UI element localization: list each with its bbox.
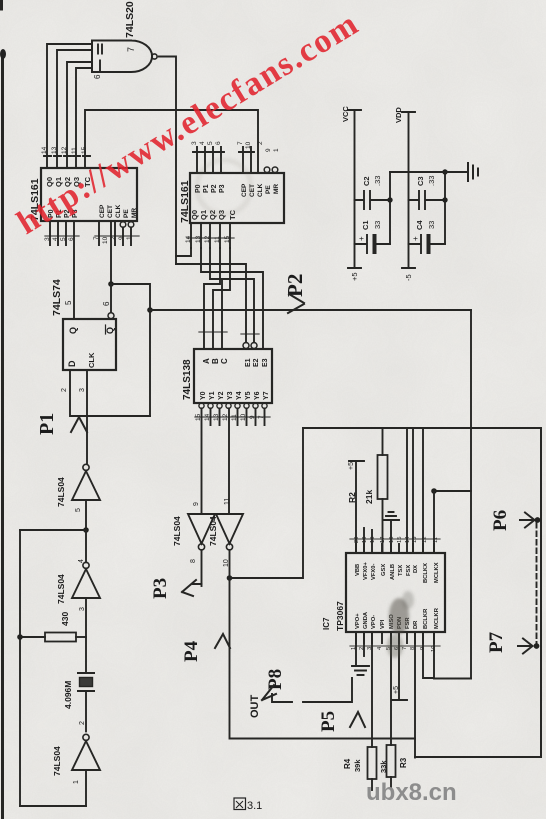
svg-text:33: 33 xyxy=(373,221,382,229)
wire node B to frame corner xyxy=(230,428,304,578)
svg-text:Y6: Y6 xyxy=(254,391,261,400)
inverter U5B 74LS04 xyxy=(72,562,100,598)
U2 bottom pin labels xyxy=(190,209,237,220)
svg-text:14: 14 xyxy=(41,146,48,154)
svg-text:Y4: Y4 xyxy=(236,391,243,400)
wire pin4 to R3 xyxy=(390,632,392,745)
label 74LS161 U2 xyxy=(179,180,191,223)
wire loop top xyxy=(20,529,86,531)
wire Q3->U3 input xyxy=(76,68,92,168)
ground symbol caps xyxy=(468,163,478,181)
codec IC7 TP3067 xyxy=(346,553,445,632)
svg-text:DX: DX xyxy=(413,565,419,573)
svg-text:2: 2 xyxy=(61,388,68,392)
svg-text:4: 4 xyxy=(199,141,206,145)
label C1 xyxy=(361,220,370,230)
svg-text:P4: P4 xyxy=(181,640,202,662)
svg-text:+: + xyxy=(357,236,366,241)
label P2 xyxy=(283,274,307,297)
label 21k xyxy=(364,490,374,504)
svg-text:R2: R2 xyxy=(347,492,357,503)
svg-text:MR: MR xyxy=(273,184,280,194)
wire ground row xyxy=(390,171,468,173)
svg-text:R3: R3 xyxy=(399,757,408,768)
U1 bottom stubs P0-P3 xyxy=(50,221,66,245)
svg-text:BCLKX: BCLKX xyxy=(423,563,429,583)
svg-text:21k: 21k xyxy=(364,490,374,504)
svg-text:+: + xyxy=(411,236,420,241)
U1 bottom pin labels P0-P3 CEP CET CLK PE MR xyxy=(48,209,79,218)
wire DX to frame xyxy=(412,428,414,553)
svg-text:P6: P6 xyxy=(490,510,511,531)
wire U3 output net xyxy=(159,57,176,265)
capacitor C3 .33 xyxy=(409,191,446,209)
svg-text:DR: DR xyxy=(413,620,419,629)
wire GNDA stub xyxy=(363,632,365,656)
arrow P8 xyxy=(262,685,276,700)
U6 output stubs and pin numbers xyxy=(211,408,265,425)
svg-text:VFX0-: VFX0- xyxy=(371,564,377,580)
svg-text:P2: P2 xyxy=(211,184,218,193)
arrow P4 xyxy=(215,634,230,648)
arrow P1 xyxy=(71,417,87,432)
svg-text:MCLKR: MCLKR xyxy=(434,607,440,629)
wire row279 to C xyxy=(221,279,223,349)
wire FSR long down xyxy=(414,632,416,758)
label OUT xyxy=(249,695,261,719)
svg-text:6: 6 xyxy=(102,301,111,306)
U1 bottom stubs CEP CET CLK PE MR xyxy=(99,221,115,245)
U4 pin 3 number xyxy=(79,388,86,392)
label .33 xyxy=(373,176,382,186)
pin 7 of U3 xyxy=(126,47,136,52)
frame bottom right xyxy=(415,756,541,758)
wire node A to DFF feedback column xyxy=(111,284,150,416)
junction dot P6 xyxy=(535,517,541,523)
svg-text:74LS04: 74LS04 xyxy=(208,516,218,546)
wire P2 line corner down xyxy=(470,310,472,679)
svg-text:P2: P2 xyxy=(283,274,307,297)
wire U1 TC to U2 CLK (long top run) xyxy=(85,110,258,173)
svg-text:7: 7 xyxy=(126,47,136,52)
label P8 xyxy=(265,669,286,690)
U2 PE bubble xyxy=(264,167,270,173)
svg-text:9: 9 xyxy=(193,502,200,506)
U4 Qbar bubble xyxy=(108,313,114,319)
resistor R2 21k xyxy=(378,455,388,499)
tick line U2 bottom xyxy=(187,237,234,239)
wire P5 stub line xyxy=(303,678,352,702)
svg-text:-5: -5 xyxy=(404,274,413,281)
label .33 C3 xyxy=(427,176,436,186)
ground symbol GSX xyxy=(383,512,399,553)
capacitor C2 .33 xyxy=(355,191,391,209)
svg-text:74LS20: 74LS20 xyxy=(124,1,136,38)
inverter U7B 74LS04 xyxy=(216,514,243,550)
left page border xyxy=(1,52,4,819)
svg-text:2: 2 xyxy=(79,721,86,725)
frame right edge xyxy=(540,428,542,757)
wire loop right to U5C xyxy=(85,770,87,806)
wire pin19 stub xyxy=(363,528,365,553)
pin 4 U5B xyxy=(78,559,85,563)
svg-text:P8: P8 xyxy=(265,669,286,690)
junction dot C2 node xyxy=(387,197,392,202)
svg-text:CLK: CLK xyxy=(115,204,122,218)
svg-text:P1: P1 xyxy=(36,413,58,435)
svg-text:3: 3 xyxy=(79,388,86,392)
power rail VDD xyxy=(402,112,415,268)
svg-text:13: 13 xyxy=(195,235,202,243)
faint scan smear xyxy=(197,160,251,214)
wire C1-C2 node xyxy=(389,172,391,244)
resistor R4 39k xyxy=(368,747,377,779)
svg-text:33k: 33k xyxy=(379,760,388,773)
U2 bottom pin stubs xyxy=(191,223,230,248)
svg-text:P3: P3 xyxy=(150,578,171,599)
wire rail to 430 xyxy=(20,636,45,638)
svg-text:Q: Q xyxy=(68,327,78,334)
wire pin6 to +5 tick xyxy=(392,632,407,700)
IC7 top row pin labels xyxy=(355,562,440,583)
svg-text:C4: C4 xyxy=(415,220,424,230)
svg-text:P7: P7 xyxy=(486,631,507,653)
svg-text:+5: +5 xyxy=(348,462,355,470)
svg-text:4: 4 xyxy=(52,237,59,241)
plus mark C4 xyxy=(411,236,420,241)
svg-text:74LS04: 74LS04 xyxy=(52,746,62,776)
label P5 xyxy=(318,711,339,732)
wire U5B in down to crystal xyxy=(85,598,87,673)
wire Y0 to U7A xyxy=(201,408,203,514)
tick line IC7 top xyxy=(350,538,440,540)
svg-text:TP3067: TP3067 xyxy=(335,601,345,631)
plus mark C1 xyxy=(357,236,366,241)
label 33k xyxy=(379,760,388,773)
label +5 (vcc bottom) xyxy=(350,272,359,281)
svg-text:D: D xyxy=(67,360,77,367)
label 74LS04 U5A xyxy=(56,477,66,507)
svg-text:C3: C3 xyxy=(416,176,425,186)
resistor 430 xyxy=(45,633,76,642)
label P7 xyxy=(486,631,507,653)
pin 9 U7A xyxy=(193,502,200,506)
svg-text:11: 11 xyxy=(224,498,231,505)
label TP3067 xyxy=(335,601,345,631)
svg-text:OUT: OUT xyxy=(249,695,261,719)
U6 E1 bubble xyxy=(243,343,249,349)
svg-text:VPI: VPI xyxy=(380,619,386,629)
svg-text:4: 4 xyxy=(78,559,85,563)
junction dot rail-430 xyxy=(17,634,23,640)
svg-text:Y3: Y3 xyxy=(227,391,234,400)
svg-text:VPO+: VPO+ xyxy=(355,613,361,629)
svg-text:Y5: Y5 xyxy=(245,391,252,400)
wire U5A in to loop node xyxy=(85,500,87,530)
crystal Y1 4.096M xyxy=(78,673,94,691)
label 74LS04 U5B xyxy=(56,574,66,604)
svg-text:15: 15 xyxy=(224,235,231,243)
svg-text:P5: P5 xyxy=(318,711,339,732)
svg-text:VPO-: VPO- xyxy=(371,615,377,629)
svg-text:PE: PE xyxy=(123,209,130,218)
wire U1 CET down to node A xyxy=(110,221,112,284)
label 74LS74 U4 xyxy=(51,279,63,316)
svg-text:11: 11 xyxy=(214,236,221,243)
svg-text:74LS04: 74LS04 xyxy=(56,477,66,507)
wire U2 Q3 to A xyxy=(204,248,220,349)
label -5 (vdd bottom) xyxy=(404,274,413,281)
wire U2 Q1 to E3 xyxy=(201,248,263,349)
wire U3 out to E1 xyxy=(176,264,246,342)
counter U2 74LS161 xyxy=(190,173,284,223)
svg-text:3.1: 3.1 xyxy=(247,800,262,812)
label 33 xyxy=(373,221,382,229)
label IC7 xyxy=(322,617,331,630)
svg-text:GSX: GSX xyxy=(381,564,387,576)
U2 top stubs xyxy=(197,147,251,173)
pin 5 U5A xyxy=(75,508,82,512)
junction dot osc node xyxy=(83,527,89,533)
wire node A to U4 Qbar bubble xyxy=(110,284,112,313)
wire P2 bus line xyxy=(150,309,471,311)
pin 11 U7B xyxy=(224,498,231,505)
svg-text:CEP: CEP xyxy=(241,183,248,197)
inverter U7A 74LS04 xyxy=(188,514,215,550)
svg-text:FSX: FSX xyxy=(406,565,412,576)
svg-text:11: 11 xyxy=(71,147,78,154)
IC7 top stubs xyxy=(356,428,434,553)
svg-text:12: 12 xyxy=(204,235,211,243)
svg-text:Y2: Y2 xyxy=(218,391,225,400)
U6 enable labels E1 E2 E3 xyxy=(245,358,269,367)
svg-text:.33: .33 xyxy=(427,176,436,186)
decoder U6 74LS138 xyxy=(194,349,272,403)
svg-text:6: 6 xyxy=(93,74,102,79)
svg-text:MR: MR xyxy=(131,208,138,218)
wire U3 out row to U2 Q0 xyxy=(176,248,191,256)
wire U7A out xyxy=(201,550,203,586)
svg-text:C1: C1 xyxy=(361,220,370,230)
wire OUT bracket xyxy=(272,694,292,702)
wire node B down loop xyxy=(230,578,416,739)
resistor R3 33k xyxy=(387,745,396,777)
svg-text:33: 33 xyxy=(427,221,436,229)
wire BCLKR MCLKR bracket xyxy=(423,632,471,679)
wire Q1->U3 input xyxy=(57,50,92,168)
wire BCLKX to frame xyxy=(422,428,424,553)
pin 8 U7A xyxy=(190,559,197,563)
tick line U6 outputs xyxy=(195,416,270,418)
U4 pin 2 number xyxy=(61,388,68,392)
svg-text:BCLKR: BCLKR xyxy=(423,608,429,629)
svg-text:4.096M: 4.096M xyxy=(63,681,73,709)
arrow P3 xyxy=(182,580,202,596)
label VCC xyxy=(341,106,350,122)
svg-text:MCLKX: MCLKX xyxy=(434,562,440,583)
IC7 top pin numbers xyxy=(354,536,439,543)
label 4.096M xyxy=(63,681,73,709)
arrow P7 xyxy=(518,639,533,654)
U1 PE bubble xyxy=(120,222,126,228)
svg-text:ANLB: ANLB xyxy=(390,564,396,580)
wire R2 top to frame xyxy=(382,428,384,455)
label C2 xyxy=(362,176,371,186)
svg-text:CEP: CEP xyxy=(99,204,106,218)
svg-text:9: 9 xyxy=(265,148,272,152)
svg-text:C2: C2 xyxy=(362,176,371,186)
U4 Qbar overbar xyxy=(105,325,107,334)
svg-text:1: 1 xyxy=(273,148,280,152)
svg-text:3: 3 xyxy=(44,237,51,241)
svg-text:7: 7 xyxy=(237,141,244,145)
svg-text:B: B xyxy=(211,358,220,364)
IC7 bottom pin numbers xyxy=(351,646,437,652)
inverter U5C 74LS04 xyxy=(72,734,100,770)
label +5 IC7 xyxy=(348,462,355,470)
U6 E2 bubble xyxy=(251,343,257,349)
label 39k xyxy=(353,759,362,772)
pin 2 U5C xyxy=(79,721,86,725)
label 74LS138 U6 xyxy=(182,359,193,400)
pin 10 U7B xyxy=(223,559,230,567)
label R2 xyxy=(347,492,357,503)
label R4 xyxy=(343,758,352,769)
svg-text:C: C xyxy=(220,358,229,364)
pin 1 U5C xyxy=(73,780,80,784)
wire MCLKX to dot xyxy=(433,491,435,553)
svg-text:Q: Q xyxy=(105,327,115,334)
node A junction dot xyxy=(108,281,114,287)
node P2 junction dot xyxy=(147,307,153,313)
wire C3-C4 node xyxy=(444,172,446,244)
svg-text:430: 430 xyxy=(60,612,70,626)
svg-text:E1: E1 xyxy=(245,358,252,367)
arrow P5 xyxy=(350,712,365,727)
wire L to MCLKX xyxy=(434,490,471,492)
svg-text:+5: +5 xyxy=(350,272,359,281)
label 430 xyxy=(60,612,70,626)
junction dot C3 node xyxy=(442,197,447,202)
svg-text:Q1: Q1 xyxy=(199,210,208,220)
tick line U1 bottom left xyxy=(45,235,79,237)
U1 top pin labels Q0 Q1 Q2 Q3 TC xyxy=(45,176,92,187)
label R3 xyxy=(399,757,408,768)
wire U4 CLK from oscillator xyxy=(86,370,88,464)
svg-text:5: 5 xyxy=(207,141,214,145)
wire R4 bottom stub xyxy=(371,779,373,790)
label 74LS04 U7B xyxy=(208,516,218,546)
U6 output labels Y0-Y7 xyxy=(200,391,270,400)
wire 430 to column xyxy=(76,636,86,638)
U2 top pin labels xyxy=(195,184,226,193)
svg-text:VFX0+: VFX0+ xyxy=(363,562,369,580)
svg-text:2: 2 xyxy=(257,141,264,145)
wire U5B out up xyxy=(85,530,87,562)
tick line U1 bottom right xyxy=(95,235,139,237)
svg-text:6: 6 xyxy=(215,141,222,145)
counter U1 74LS161 xyxy=(41,168,137,221)
svg-text:10: 10 xyxy=(245,141,252,149)
label +5 bottom xyxy=(393,686,400,694)
wire Y3 to U7B xyxy=(228,408,230,514)
wire pin3 to R4 xyxy=(371,632,373,747)
svg-text:IC7: IC7 xyxy=(322,617,331,630)
svg-text:5: 5 xyxy=(60,237,67,241)
svg-text:CLK: CLK xyxy=(257,183,264,197)
tick line IC7 bottom xyxy=(350,645,440,647)
U6 output bubbles xyxy=(199,403,267,408)
svg-text:ubx8.cn: ubx8.cn xyxy=(366,779,457,806)
wire U2 TC to B xyxy=(213,248,230,349)
wire U7B out to node B xyxy=(229,550,231,578)
U1 MR bubble xyxy=(128,222,134,228)
svg-text:E2: E2 xyxy=(253,358,260,367)
svg-text:39k: 39k xyxy=(353,759,362,772)
svg-text:18: 18 xyxy=(370,537,376,543)
svg-text:Y7: Y7 xyxy=(263,391,270,400)
label 33 C4 xyxy=(427,221,436,229)
svg-text:74LS04: 74LS04 xyxy=(172,516,182,546)
svg-text:15: 15 xyxy=(397,537,403,543)
wire crystal to U5C out xyxy=(85,691,87,731)
junction dot MCLKX xyxy=(431,488,437,494)
svg-text:14: 14 xyxy=(185,235,192,243)
junction dot gnd row xyxy=(442,169,447,174)
label 74LS161 U1 xyxy=(29,178,41,221)
svg-text:Q0: Q0 xyxy=(190,210,199,220)
svg-text:A: A xyxy=(202,358,211,364)
junction dot P7 xyxy=(534,643,540,649)
label C4 xyxy=(415,220,424,230)
svg-text:P1: P1 xyxy=(203,184,210,193)
label 74LS20 xyxy=(124,1,136,38)
label P1 xyxy=(36,413,58,435)
label P6 xyxy=(490,510,511,531)
flip-flop U4 74LS74 xyxy=(63,319,116,370)
svg-text:5: 5 xyxy=(75,508,82,512)
main frame top line xyxy=(303,427,541,429)
svg-text:12: 12 xyxy=(61,146,68,154)
power rail VCC xyxy=(348,110,361,268)
wire U4 D input loop xyxy=(70,370,150,416)
wire R2 bottom to pin xyxy=(382,499,384,553)
pin 6 of U3 xyxy=(93,74,102,79)
svg-text:P3: P3 xyxy=(219,184,226,193)
svg-text:74LS74: 74LS74 xyxy=(51,279,63,316)
U4 pin 6 number xyxy=(102,301,111,306)
inverter U5A 74LS04 xyxy=(72,464,100,500)
svg-text:5: 5 xyxy=(64,300,73,305)
svg-text:E3: E3 xyxy=(262,358,269,367)
capacitor C4 33 polarized xyxy=(409,235,446,253)
svg-text:TSX: TSX xyxy=(398,565,404,576)
wire U2 Q2 to E2 xyxy=(210,248,254,342)
pin 3 U5B xyxy=(79,607,86,611)
U2 MR bubble xyxy=(272,167,278,173)
label VDD xyxy=(394,107,403,123)
svg-text:R4: R4 xyxy=(343,758,352,769)
wire loop left rail xyxy=(19,530,21,806)
label C3 xyxy=(416,176,425,186)
dashed wire P6-P7 xyxy=(536,523,538,643)
label 74LS04 U5C xyxy=(52,746,62,776)
svg-text:1: 1 xyxy=(73,780,80,784)
label P4 xyxy=(181,640,202,662)
svg-text:VCC: VCC xyxy=(341,106,350,122)
ink smudge on IC7 xyxy=(387,591,414,658)
node B junction dot xyxy=(227,575,233,581)
